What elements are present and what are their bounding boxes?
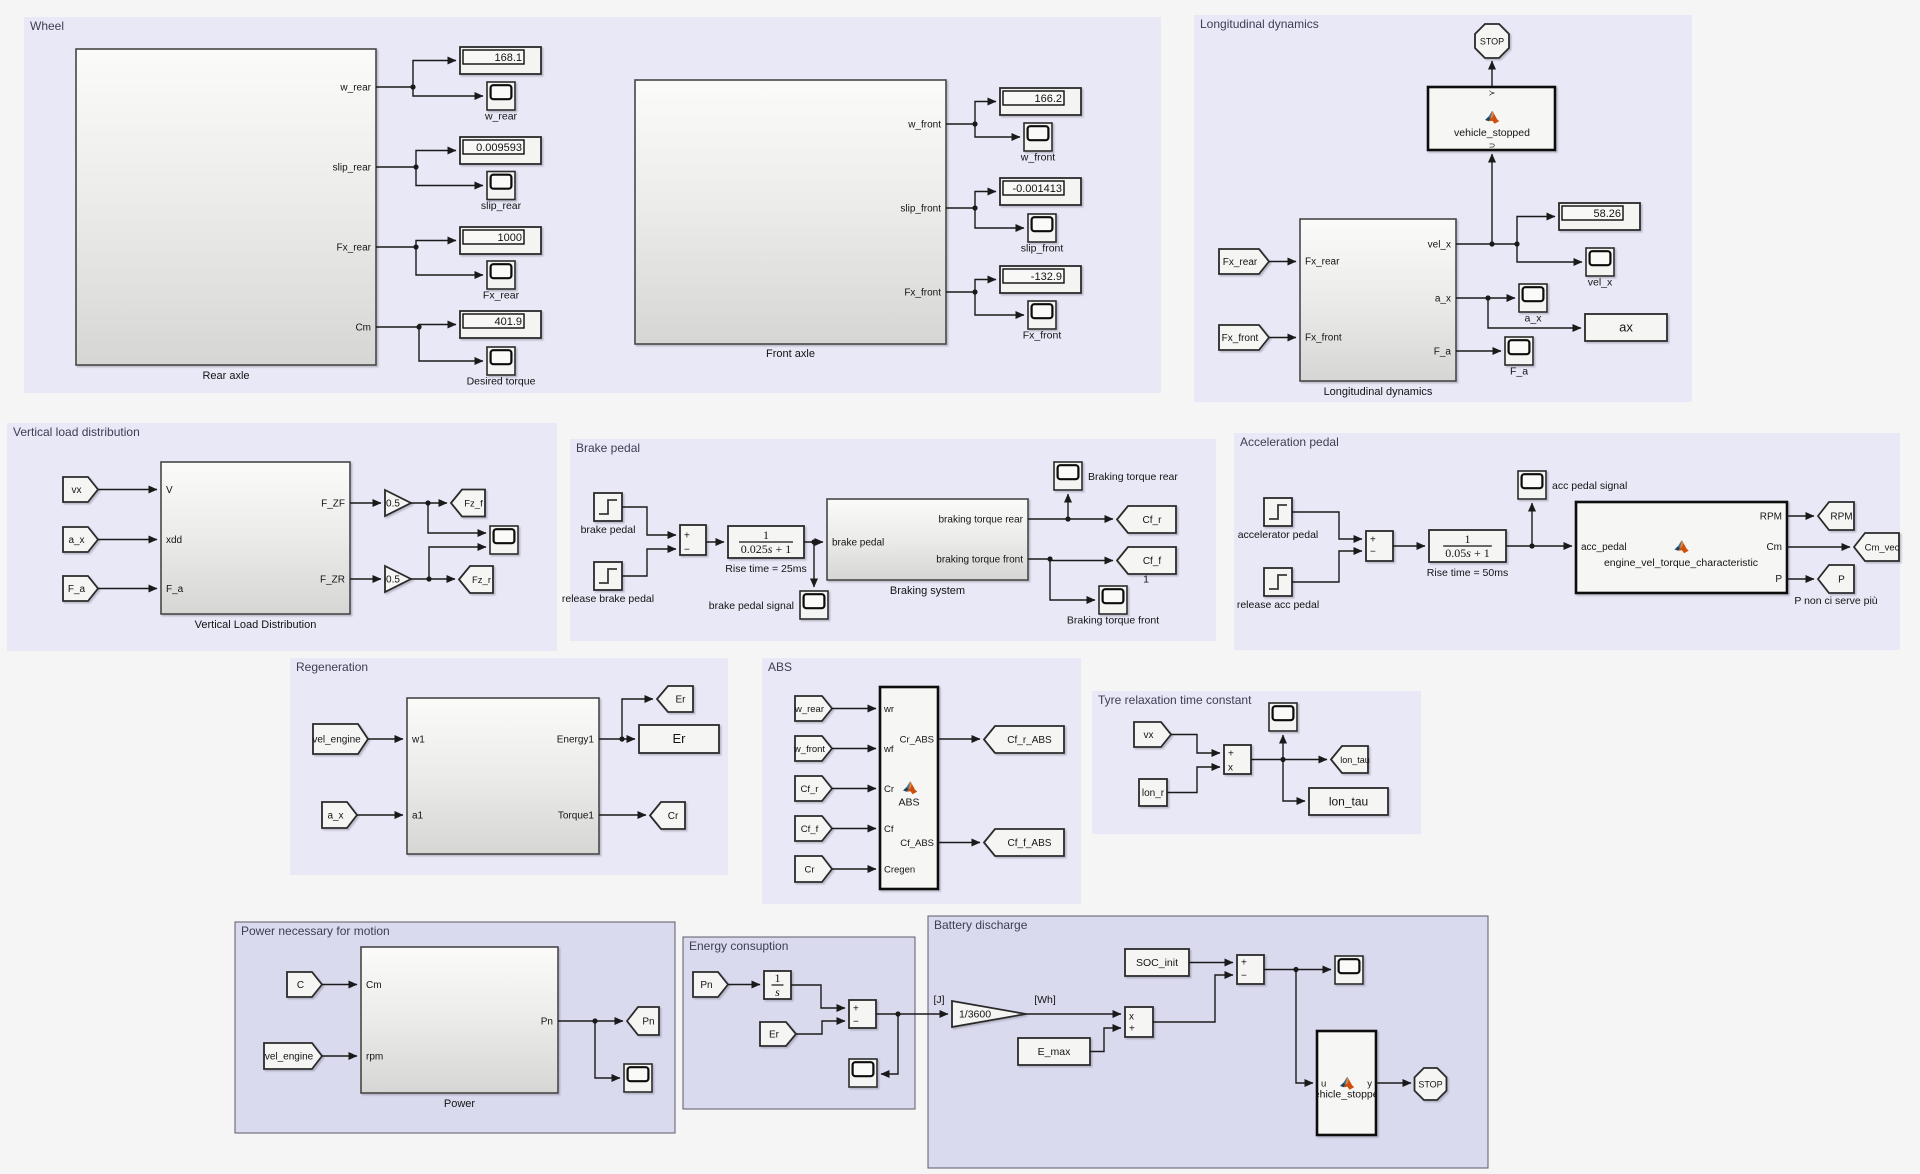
svg-text:s: s xyxy=(775,985,780,999)
area Regeneration xyxy=(290,658,728,875)
svg-text:w_front: w_front xyxy=(1020,152,1056,164)
wire Energy1 to Er block xyxy=(599,736,635,741)
wire Fx_rear tag to block xyxy=(1269,261,1296,263)
svg-text:Cf_f: Cf_f xyxy=(1143,556,1162,567)
wire divide out xyxy=(1251,757,1327,762)
svg-text:[J]: [J] xyxy=(933,994,944,1006)
area Acceleration pedal xyxy=(1234,433,1900,650)
from tag vx tyre xyxy=(1134,722,1171,747)
svg-text:E_max: E_max xyxy=(1038,1046,1071,1058)
goto tag P xyxy=(1818,565,1854,593)
constant SOC_init xyxy=(1125,949,1189,976)
goto tag ax xyxy=(1585,314,1667,341)
svg-text:Fx_front: Fx_front xyxy=(1023,330,1062,342)
svg-text:Rise time = 50ms: Rise time = 50ms xyxy=(1427,567,1508,579)
svg-text:-0.001413: -0.001413 xyxy=(1012,183,1062,195)
wire w_front to display xyxy=(946,102,996,127)
svg-text:slip_rear: slip_rear xyxy=(333,163,372,174)
svg-text:+: + xyxy=(1228,749,1234,760)
wire vel_engine to rpm xyxy=(322,1055,357,1057)
svg-text:0.05s + 1: 0.05s + 1 xyxy=(1445,546,1489,560)
area Longitudinal dynamics xyxy=(1194,15,1692,402)
svg-text:166.2: 166.2 xyxy=(1034,93,1062,105)
label P non ci serve piu xyxy=(1794,595,1877,607)
svg-text:Vertical Load Distribution: Vertical Load Distribution xyxy=(195,619,317,631)
svg-text:Longitudinal dynamics: Longitudinal dynamics xyxy=(1200,17,1319,31)
wire gain branch to scope in1 xyxy=(428,503,486,533)
wire accelerator pedal to sum xyxy=(1292,512,1362,539)
wire vel_x to scope branch xyxy=(1517,244,1582,262)
svg-text:401.9: 401.9 xyxy=(494,316,522,328)
wire branch down to power scope xyxy=(595,1021,620,1078)
svg-text:Cf_f_ABS: Cf_f_ABS xyxy=(1008,838,1052,849)
svg-text:y: y xyxy=(1367,1079,1372,1090)
svg-text:C: C xyxy=(297,980,304,991)
goto tag RPM xyxy=(1818,502,1854,530)
svg-text:Fx_front: Fx_front xyxy=(904,288,941,299)
wire RPM out xyxy=(1787,515,1814,517)
wire transfer fcn to braking system xyxy=(804,539,823,544)
wire Cf_f to Cf xyxy=(832,828,876,830)
svg-text:Braking torque rear: Braking torque rear xyxy=(1088,471,1178,483)
from tag Er energy xyxy=(760,1022,796,1046)
wire transfer fcn to engine block xyxy=(1506,543,1572,548)
scope acc pedal signal xyxy=(1518,471,1627,499)
wire Cr to Cregen xyxy=(832,868,876,870)
wire gain to Fz_r xyxy=(411,576,455,581)
wire slip_rear branch to scope xyxy=(416,167,483,186)
from tag C xyxy=(287,972,322,997)
wire w_front to wf xyxy=(832,748,876,750)
wire sum battery out to scope xyxy=(1264,967,1331,972)
scope Fx_front xyxy=(1023,301,1062,342)
svg-text:Cr: Cr xyxy=(804,865,814,876)
from tag F_a xyxy=(63,576,98,601)
svg-text:Cm: Cm xyxy=(355,323,371,334)
from tag vel_engine power xyxy=(264,1043,322,1069)
wire integrator to sum xyxy=(791,985,845,1008)
svg-text:1: 1 xyxy=(1143,574,1149,586)
wire F_a to block xyxy=(98,588,157,590)
wire Fx_front to display xyxy=(946,280,996,295)
svg-text:Fx_front: Fx_front xyxy=(1222,333,1259,344)
sum brake xyxy=(680,525,706,556)
svg-text:a1: a1 xyxy=(412,811,424,822)
scope w_front xyxy=(1020,123,1056,164)
svg-text:Er: Er xyxy=(673,731,687,746)
svg-text:Rear axle: Rear axle xyxy=(202,370,249,382)
svg-text:+: + xyxy=(1129,1024,1135,1035)
constant lon_r xyxy=(1139,779,1167,806)
svg-text:Battery discharge: Battery discharge xyxy=(934,918,1028,932)
svg-text:slip_rear: slip_rear xyxy=(481,200,522,212)
display slip_front value -0.001413 xyxy=(1000,178,1081,205)
svg-text:[Wh]: [Wh] xyxy=(1034,994,1056,1006)
svg-text:1: 1 xyxy=(775,971,781,985)
svg-text:F_ZF: F_ZF xyxy=(321,499,345,510)
svg-text:Pn: Pn xyxy=(642,1017,654,1028)
svg-text:Cr: Cr xyxy=(668,811,679,822)
svg-text:0.025s + 1: 0.025s + 1 xyxy=(741,542,791,556)
svg-text:x: x xyxy=(1228,763,1233,774)
svg-text:Cf_f: Cf_f xyxy=(801,824,819,835)
wire braking torque front to Cf_f xyxy=(1028,556,1113,561)
area Battery discharge xyxy=(928,916,1488,1168)
svg-text:0.5: 0.5 xyxy=(386,499,400,510)
goto tag Cm_vec xyxy=(1854,533,1900,561)
svg-text:vel_engine: vel_engine xyxy=(265,1052,314,1063)
wire branch up to acc pedal signal scope xyxy=(1531,503,1533,546)
subsystem Braking system xyxy=(827,499,1028,597)
wire release acc pedal to sum xyxy=(1292,551,1362,582)
svg-text:ABS: ABS xyxy=(898,797,919,809)
svg-text:acc_pedal: acc_pedal xyxy=(1581,542,1627,553)
svg-text:w_rear: w_rear xyxy=(484,111,518,123)
svg-text:P non ci serve più: P non ci serve più xyxy=(1794,595,1877,607)
svg-text:slip_front: slip_front xyxy=(900,204,941,215)
svg-text:a_x: a_x xyxy=(68,535,84,546)
wire a_x to goto ax xyxy=(1488,298,1581,328)
product block xyxy=(1125,1007,1153,1037)
step release brake pedal xyxy=(562,562,654,605)
gain 0.5 front xyxy=(385,490,411,516)
svg-text:Cf_r_ABS: Cf_r_ABS xyxy=(1007,735,1052,746)
from tag Fx_front xyxy=(1219,325,1269,350)
wire sum to transfer fcn xyxy=(706,541,724,543)
wire sum to transfer fcn 50ms xyxy=(1393,545,1425,547)
from tag vx xyxy=(63,477,98,502)
scope Fx_rear xyxy=(483,261,520,302)
svg-text:lon_r: lon_r xyxy=(1142,788,1165,799)
scope vertical loads xyxy=(490,526,518,554)
svg-text:x: x xyxy=(1129,1012,1134,1023)
wire Cr_ABS out xyxy=(938,738,980,740)
svg-text:−: − xyxy=(1241,971,1247,982)
step release acc pedal xyxy=(1237,568,1319,611)
wire F_ZF to gain xyxy=(350,502,381,504)
svg-text:Longitudinal dynamics: Longitudinal dynamics xyxy=(1324,386,1433,398)
wire Fx_rear to display xyxy=(376,241,456,250)
svg-text:Rise time = 25ms: Rise time = 25ms xyxy=(725,563,806,575)
svg-text:Fx_rear: Fx_rear xyxy=(337,243,372,254)
svg-text:+: + xyxy=(1241,958,1247,969)
matlab function vehicle_stopped battery xyxy=(1309,1031,1385,1135)
stop block battery xyxy=(1415,1068,1447,1100)
svg-text:Energy consuption: Energy consuption xyxy=(689,939,788,953)
svg-text:Energy1: Energy1 xyxy=(557,735,595,746)
svg-text:Braking torque front: Braking torque front xyxy=(1067,615,1159,627)
wire branch down to vehicle_stopped u xyxy=(1296,970,1313,1084)
svg-text:Er: Er xyxy=(676,695,687,706)
svg-text:Braking system: Braking system xyxy=(890,585,965,597)
wire P out xyxy=(1787,578,1814,580)
svg-text:Cm: Cm xyxy=(366,980,382,991)
wire w_rear to wr xyxy=(832,708,876,710)
svg-text:vehicle_stopped: vehicle_stopped xyxy=(1309,1089,1385,1101)
wire branch down to lon_tau block xyxy=(1283,760,1305,802)
subsystem Regeneration subsystem xyxy=(407,698,599,854)
svg-text:Cf: Cf xyxy=(884,824,894,835)
wire slip_front to display xyxy=(946,192,996,211)
svg-text:-132.9: -132.9 xyxy=(1031,271,1062,283)
svg-text:+: + xyxy=(853,1004,859,1015)
svg-text:1: 1 xyxy=(763,528,769,542)
step brake pedal xyxy=(581,493,636,536)
svg-text:Desired torque: Desired torque xyxy=(467,376,536,388)
svg-text:1: 1 xyxy=(1465,532,1471,546)
area Vertical load distribution xyxy=(7,423,557,651)
wire product to sum battery xyxy=(1153,975,1233,1022)
display slip_rear value 0.009593 xyxy=(460,137,541,164)
block Er xyxy=(639,725,719,753)
goto tag Cf_f_ABS xyxy=(984,829,1064,856)
svg-text:Regeneration: Regeneration xyxy=(296,660,368,674)
from tag Cf_r abs xyxy=(795,776,832,801)
from tag Cf_f abs xyxy=(795,816,832,841)
scope slip_rear xyxy=(481,172,522,213)
subsystem Power xyxy=(361,947,558,1110)
wire Er to sum xyxy=(796,1021,845,1034)
scope battery xyxy=(1335,956,1363,984)
svg-text:0.5: 0.5 xyxy=(386,575,400,586)
svg-text:Cf_ABS: Cf_ABS xyxy=(900,838,934,849)
svg-text:1000: 1000 xyxy=(498,232,522,244)
from tag w_front abs xyxy=(793,736,832,761)
area Tyre relaxation time constant xyxy=(1092,691,1421,834)
svg-text:Power necessary for motion: Power necessary for motion xyxy=(241,924,390,938)
sum energy xyxy=(849,1000,876,1028)
svg-text:Power: Power xyxy=(444,1098,476,1110)
wire Cm branch to scope xyxy=(419,327,483,361)
svg-text:a_x: a_x xyxy=(1435,294,1451,305)
goto tag lon_tau xyxy=(1331,746,1370,773)
svg-text:P: P xyxy=(1838,575,1845,586)
svg-text:Vertical load distribution: Vertical load distribution xyxy=(13,425,140,439)
svg-text:lon_tau: lon_tau xyxy=(1340,755,1370,765)
wire Fx_front branch to scope xyxy=(975,292,1024,315)
svg-text:w_front: w_front xyxy=(907,120,941,131)
wire brake pedal to sum xyxy=(622,507,676,535)
svg-text:ax: ax xyxy=(1619,320,1633,335)
svg-text:braking torque front: braking torque front xyxy=(936,555,1023,566)
area Energy consuption xyxy=(683,937,915,1109)
svg-text:Front axle: Front axle xyxy=(766,348,815,360)
svg-text:u: u xyxy=(1321,1079,1326,1090)
svg-text:accelerator pedal: accelerator pedal xyxy=(1238,529,1319,541)
svg-text:engine_vel_torque_characterist: engine_vel_torque_characteristic xyxy=(1604,557,1758,569)
wire branch up to scope tyre xyxy=(1282,735,1284,760)
wire Pn to integrator xyxy=(728,984,760,986)
wire Cf_r to Cr xyxy=(832,788,876,790)
step accelerator pedal xyxy=(1238,498,1319,541)
svg-text:+: + xyxy=(1370,535,1376,546)
display w_front value 166.2 xyxy=(1000,88,1081,115)
svg-text:Cf_r: Cf_r xyxy=(801,784,819,795)
svg-text:w_rear: w_rear xyxy=(339,83,371,94)
svg-text:Cm_vec: Cm_vec xyxy=(1865,543,1900,554)
svg-text:Cm: Cm xyxy=(1766,542,1782,553)
svg-text:58.26: 58.26 xyxy=(1593,208,1621,220)
svg-text:brake pedal: brake pedal xyxy=(581,524,636,536)
goto tag Cf_f xyxy=(1117,547,1176,574)
svg-text:⊃: ⊃ xyxy=(1489,141,1496,150)
svg-text:SOC_init: SOC_init xyxy=(1136,957,1178,969)
stop block xyxy=(1475,24,1509,58)
display vel_x value 58.26 xyxy=(1559,203,1640,230)
wire E_max to product xyxy=(1090,1028,1121,1052)
display Fx_rear value 1000 xyxy=(460,227,541,254)
scope F_a xyxy=(1505,337,1533,378)
svg-text:brake pedal signal: brake pedal signal xyxy=(709,600,794,612)
svg-text:w_rear: w_rear xyxy=(794,704,824,715)
wire w_rear branch to scope xyxy=(413,87,483,96)
wire lon_r to divide xyxy=(1167,767,1220,793)
svg-text:acc pedal signal: acc pedal signal xyxy=(1552,480,1627,492)
svg-text:Fx_rear: Fx_rear xyxy=(1305,257,1340,268)
svg-text:vel_x: vel_x xyxy=(1428,240,1451,251)
svg-text:Fz_r: Fz_r xyxy=(472,575,491,586)
svg-text:F_ZR: F_ZR xyxy=(320,575,345,586)
from tag Cr abs xyxy=(795,856,832,882)
goto tag Cr xyxy=(650,802,685,829)
scope w_rear xyxy=(484,82,518,123)
transfer fcn 1/(0.025s+1) xyxy=(725,526,806,575)
wire Pn out to goto xyxy=(558,1018,623,1023)
area Wheel xyxy=(24,17,1161,393)
wire vx to divide xyxy=(1171,735,1220,754)
svg-text:STOP: STOP xyxy=(1418,1080,1442,1090)
subsystem Vertical Load Distribution xyxy=(161,462,350,631)
svg-text:Torque1: Torque1 xyxy=(558,811,595,822)
svg-text:braking torque rear: braking torque rear xyxy=(939,515,1024,526)
label 1 below Cf_f xyxy=(1143,574,1149,586)
subsystem Rear axle xyxy=(76,49,376,382)
wire vel_x to display branch xyxy=(1456,217,1555,247)
scope vel_x xyxy=(1586,248,1614,289)
svg-text:vel_engine: vel_engine xyxy=(312,735,361,746)
wire Torque1 to Cr goto xyxy=(599,814,646,816)
svg-text:Pn: Pn xyxy=(700,980,712,991)
svg-text:≻: ≻ xyxy=(1489,89,1496,98)
svg-text:Cf_r: Cf_r xyxy=(1143,515,1163,526)
gain 1/3600 xyxy=(952,1001,1026,1027)
goto tag Fz_f xyxy=(451,490,485,517)
svg-text:rpm: rpm xyxy=(366,1052,383,1063)
label J unit xyxy=(933,994,944,1006)
wire a_x to a1 xyxy=(357,814,403,816)
integrator 1/s xyxy=(764,971,791,999)
goto tag Fz_r xyxy=(459,566,493,593)
svg-text:Pn: Pn xyxy=(541,1017,553,1028)
wire Cf_ABS out xyxy=(938,842,980,844)
svg-text:RPM: RPM xyxy=(1830,512,1852,523)
svg-text:release acc pedal: release acc pedal xyxy=(1237,599,1319,611)
svg-text:Fz_f: Fz_f xyxy=(464,499,483,510)
block lon_tau xyxy=(1309,788,1388,815)
svg-text:Cr: Cr xyxy=(884,784,894,795)
sum battery xyxy=(1237,955,1264,984)
matlab function engine_vel_torque_characteristic xyxy=(1576,502,1787,593)
goto tag Er xyxy=(657,686,693,712)
wire vel_x up to vehicle_stopped xyxy=(1489,154,1494,247)
wire vehicle_stopped to stop xyxy=(1491,61,1493,87)
from tag Pn energy xyxy=(693,972,728,997)
wire vehicle_stopped y to stop xyxy=(1376,1082,1411,1084)
svg-text:Fx_rear: Fx_rear xyxy=(483,290,520,302)
area Power necessary for motion xyxy=(235,922,675,1133)
matlab function vehicle_stopped xyxy=(1428,87,1555,150)
svg-text:a_x: a_x xyxy=(1525,313,1543,325)
from tag w_rear abs xyxy=(794,696,832,721)
wire branch up to scope braking torque rear xyxy=(1067,494,1069,519)
wire w_front branch to scope xyxy=(975,124,1020,137)
svg-text:F_a: F_a xyxy=(166,584,184,595)
svg-text:slip_front: slip_front xyxy=(1021,243,1064,255)
wire vx to block xyxy=(98,489,157,491)
svg-text:vx: vx xyxy=(72,485,82,496)
svg-text:F_a: F_a xyxy=(1434,347,1452,358)
display w_rear value 168.1 xyxy=(460,47,541,74)
from tag a_x xyxy=(63,527,98,552)
svg-text:w_front: w_front xyxy=(793,744,826,755)
scope a_x xyxy=(1519,284,1547,325)
goto tag Cf_r xyxy=(1117,506,1176,533)
svg-text:brake pedal: brake pedal xyxy=(832,538,884,549)
goto tag Pn xyxy=(627,1007,659,1035)
wire release brake pedal to sum xyxy=(622,549,676,576)
wire gain branch to scope in2 xyxy=(429,547,486,579)
transfer fcn 1/(0.05s+1) xyxy=(1427,530,1508,579)
subsystem Longitudinal dynamics xyxy=(1300,219,1456,398)
wire slip_rear to display xyxy=(376,151,456,170)
area ABS xyxy=(762,658,1081,904)
scope Braking torque rear xyxy=(1054,462,1178,490)
svg-text:Tyre relaxation time constant: Tyre relaxation time constant xyxy=(1098,693,1252,707)
svg-text:Fx_rear: Fx_rear xyxy=(1223,257,1258,268)
svg-text:F_a: F_a xyxy=(68,584,86,595)
svg-text:vehicle_stopped: vehicle_stopped xyxy=(1454,127,1530,139)
wire sum energy out to battery area xyxy=(876,1011,948,1016)
svg-text:RPM: RPM xyxy=(1760,512,1782,523)
scope tyre relaxation xyxy=(1269,703,1297,731)
svg-text:w1: w1 xyxy=(411,735,425,746)
label Wh unit xyxy=(1034,994,1056,1006)
svg-text:P: P xyxy=(1775,574,1782,585)
svg-text:0.009593: 0.009593 xyxy=(476,142,522,154)
wire Fx_front tag to block xyxy=(1269,337,1296,339)
svg-text:Cr_ABS: Cr_ABS xyxy=(900,735,934,746)
svg-text:−: − xyxy=(853,1017,859,1028)
svg-text:Wheel: Wheel xyxy=(30,19,64,33)
svg-text:vel_x: vel_x xyxy=(1588,277,1613,289)
svg-text:−: − xyxy=(1370,547,1376,558)
wire w_rear to display and scope xyxy=(376,61,456,90)
svg-text:V: V xyxy=(166,485,173,496)
svg-text:Acceleration pedal: Acceleration pedal xyxy=(1240,435,1339,449)
scope Desired torque xyxy=(467,347,536,388)
wire Fx_rear branch to scope xyxy=(416,247,483,275)
svg-text:a_x: a_x xyxy=(327,811,343,822)
svg-text:xdd: xdd xyxy=(166,535,182,546)
constant E_max xyxy=(1018,1038,1090,1065)
wire a_x to block xyxy=(98,539,157,541)
from tag Fx_rear xyxy=(1219,249,1269,274)
svg-text:F_a: F_a xyxy=(1510,366,1528,378)
scope brake pedal signal xyxy=(709,591,828,619)
wire a_x to scope xyxy=(1456,295,1515,300)
svg-text:1/3600: 1/3600 xyxy=(959,1009,991,1021)
scope slip_front xyxy=(1021,214,1064,255)
